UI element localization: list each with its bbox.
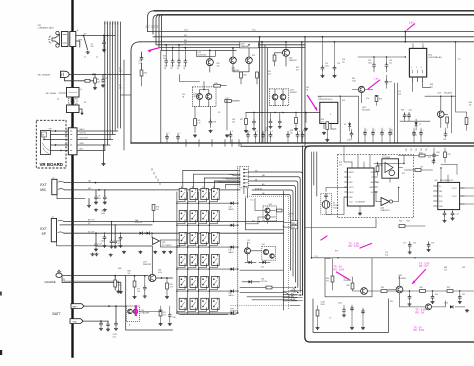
capacitor C38: [210, 107, 212, 121]
svg-text:2SC4081: 2SC4081: [398, 278, 406, 280]
svg-text:47u: 47u: [118, 243, 121, 245]
capacitor C81: [432, 291, 434, 296]
diode D7: [415, 122, 418, 125]
svg-text:C6: C6: [105, 78, 107, 80]
wire stub: [455, 306, 465, 308]
svg-text:DTC144TU: DTC144TU: [162, 245, 172, 247]
svg-text:R47: R47: [240, 119, 243, 121]
capacitor C8: [95, 190, 97, 197]
svg-text:VR BOARD: VR BOARD: [40, 162, 63, 167]
transistor Q19 dashed pair: [269, 89, 288, 106]
capacitor C14: [95, 233, 97, 243]
resistor R60: [446, 113, 448, 115]
resistor R7B: [153, 211, 155, 222]
wire SJ OUT: [64, 232, 284, 234]
wire top rail double line: [154, 10, 474, 12]
wire gnd feed: [83, 320, 108, 322]
wire VR to connector rows: [44, 131, 68, 151]
wire q29 links: [139, 310, 160, 311]
resistor R87: [447, 290, 453, 293]
svg-text:R74: R74: [448, 154, 451, 156]
diode D5: [349, 122, 351, 123]
VR BOARD dashed outline: [36, 120, 66, 168]
svg-text:RX : 5.0V: RX : 5.0V: [334, 269, 345, 272]
wire y=223.8: [246, 223, 259, 225]
ground IC9: [359, 206, 361, 212]
transistor Q32: [245, 248, 251, 254]
wire keypad row 1 output: [177, 202, 229, 204]
wire ic9 to right: [374, 155, 404, 164]
junction dots IC9 area: [403, 163, 404, 164]
capacitor C58: [444, 132, 448, 137]
svg-text:2SB1132: 2SB1132: [143, 264, 152, 266]
keypad row 3 switches S9-S12: [179, 232, 219, 245]
wire keypad row 3 output: [177, 246, 229, 248]
svg-text:R29: R29: [252, 55, 255, 57]
wire y=270: [240, 269, 283, 271]
wire y=146.3 box top extension: [241, 145, 310, 147]
svg-text:SJ OUT: SJ OUT: [88, 231, 95, 233]
ground mic return: [88, 199, 90, 205]
capacitor C15: [111, 222, 113, 241]
wire charge rail to Q27: [126, 275, 149, 277]
svg-text:J3: J3: [71, 126, 73, 128]
svg-text:C23: C23: [337, 63, 340, 65]
svg-text:INPUT: INPUT: [349, 172, 355, 174]
wire exits to main box: PTT etc: [240, 287, 295, 295]
transistor Q30 dashed pair: [263, 206, 277, 221]
svg-text:10k: 10k: [163, 58, 166, 60]
wire x1 to IC9: [326, 188, 347, 215]
svg-text:C66: C66: [376, 182, 379, 184]
svg-text:C58: C58: [443, 139, 446, 141]
component box U2 (hook switch): [67, 88, 80, 98]
svg-text:VOL IN: VOL IN: [80, 133, 87, 135]
svg-text:10u: 10u: [389, 62, 392, 64]
svg-text:10u: 10u: [137, 291, 140, 293]
diode D32 row 3: [231, 246, 234, 249]
resistor R50: [295, 113, 297, 118]
svg-text:2SA1586: 2SA1586: [241, 45, 249, 48]
magenta annotation at x=406 vcc drop: [407, 24, 415, 30]
switch contacts: [58, 220, 64, 221]
svg-text:MIC: MIC: [40, 188, 47, 192]
diode D14: [263, 261, 266, 264]
svg-text:Q81: Q81: [162, 242, 166, 244]
resistor R47: [245, 113, 247, 119]
svg-text:TX1: TX1: [411, 148, 413, 151]
component box U3: [67, 105, 80, 113]
svg-text:0.47u: 0.47u: [158, 272, 162, 274]
svg-text:TX2: TX2: [416, 148, 418, 151]
wire bundle extra x=120.5: [120, 22, 122, 128]
capacitor C4: [103, 36, 105, 42]
svg-text:0.8V: 0.8V: [374, 79, 379, 81]
ground: [80, 113, 83, 115]
dotted vertical x=288.5: [288, 194, 290, 310]
svg-text:R201: R201: [419, 153, 423, 155]
capacitor C91: [144, 276, 146, 287]
IC6 regulator box: [320, 102, 338, 123]
net tag boxes: [291, 221, 298, 224]
wire AF OUT: [64, 221, 284, 223]
wire EXT wires vertical crossing dots: [259, 221, 260, 222]
magenta annotation Q28: [368, 80, 379, 89]
ground: [94, 248, 98, 251]
wire long vertical x=160.8: [160, 50, 162, 143]
wire bus rail y=47.6: [160, 47, 306, 49]
svg-text:0.01: 0.01: [413, 243, 416, 245]
capacitor C102: [350, 131, 354, 136]
node KI arrows: [283, 292, 297, 301]
wire rail y=119: [400, 120, 430, 122]
wire BACC: [77, 130, 118, 132]
svg-text:R33: R33: [243, 75, 246, 77]
wire verticals x=394.5/397: [395, 83, 398, 143]
wire verticals inside box top: [314, 152, 317, 196]
wire y=57 rail: [358, 56, 405, 58]
svg-text:R63: R63: [407, 221, 410, 223]
svg-text:33u: 33u: [98, 198, 101, 200]
wire board bottom rail y=143: [131, 142, 474, 144]
resistor R48: [134, 276, 136, 281]
svg-text:BACC: BACC: [80, 128, 86, 131]
transistor Q22: [206, 59, 213, 66]
svg-text:L1: L1: [149, 25, 151, 27]
keypad row 5 switches S17-S20: [179, 276, 219, 289]
capacitor C36b: [141, 52, 143, 57]
svg-text:R86: R86: [420, 287, 423, 289]
resistor R66: [277, 209, 283, 212]
transistor Q81 triangle: [153, 238, 160, 245]
svg-text:D5: D5: [344, 124, 346, 126]
svg-text:10k: 10k: [156, 209, 159, 211]
wire ACC: [77, 150, 105, 152]
wire net tag lines to bus band: [248, 172, 302, 295]
potentiometer arrows: [43, 148, 49, 154]
svg-text:AF(AUX): AF(AUX): [255, 187, 263, 190]
wire left net bundle verticals: [104, 22, 106, 151]
svg-text:S-80735AL-AX: S-80735AL-AX: [428, 56, 442, 59]
svg-text:XP1501: XP1501: [193, 96, 200, 98]
component R/C row: [266, 286, 272, 289]
svg-text:4.7k: 4.7k: [197, 122, 200, 124]
svg-text:47k: 47k: [339, 164, 342, 166]
diode D11: [147, 232, 150, 235]
svg-text:RX : 5.0V: RX : 5.0V: [414, 329, 425, 332]
svg-text:100u: 100u: [101, 213, 105, 215]
svg-text:R85: R85: [381, 287, 384, 289]
svg-text:4.7k: 4.7k: [268, 73, 271, 75]
svg-text:MA151: MA151: [229, 294, 234, 297]
wire bundle extra x=124: [123, 60, 125, 150]
capacitor bypass at x=288: [287, 131, 289, 134]
wire SP out: [76, 35, 115, 37]
wire q30 row links: [255, 199, 265, 224]
capacitor C23: [334, 42, 336, 67]
switch contacts: [59, 181, 65, 182]
diode D30 row 1: [231, 202, 234, 205]
svg-text:L0: L0: [146, 25, 148, 27]
svg-text:VCO1: VCO1: [452, 188, 457, 190]
resistor R33: [240, 72, 243, 78]
magenta annotation charge: [135, 305, 137, 316]
wire bundle bend x=120.5: [121, 94, 132, 96]
wire loop rectangle around Q33: [325, 259, 372, 297]
svg-text:10k: 10k: [97, 81, 100, 83]
capacitor C82: [459, 291, 461, 296]
wire bottom rail segment: [400, 299, 425, 307]
svg-text:2SB1201: 2SB1201: [289, 60, 297, 62]
svg-text:C78: C78: [431, 243, 434, 245]
connector EXT MIC jack body: [52, 179, 57, 194]
wire ic10 pins: [378, 165, 403, 182]
svg-text:10u: 10u: [342, 61, 345, 63]
connector EXT SP jack body: [51, 218, 56, 241]
svg-text:5.0V: 5.0V: [409, 22, 414, 24]
wire left feed risers: [152, 168, 160, 184]
svg-text:C49: C49: [389, 82, 392, 84]
svg-text:C5: C5: [96, 57, 98, 59]
wire vertical band above right box: [301, 42, 303, 143]
wire ic8 top link: [441, 165, 457, 175]
svg-text:DTA114TU: DTA114TU: [380, 209, 390, 212]
capacitor C9: [104, 190, 106, 197]
svg-text:2SA1586: 2SA1586: [232, 69, 240, 72]
svg-text:EXT: EXT: [40, 183, 46, 187]
IC8 pins: [434, 185, 438, 187]
IC11 box: [409, 48, 426, 77]
svg-text:100u: 100u: [325, 65, 329, 67]
wire x=451.5: [451, 96, 453, 133]
svg-text:DTA144EK: DTA144EK: [141, 311, 151, 314]
IC9 dashed section box: [337, 155, 413, 218]
wire bus rail VCC y=32: [148, 31, 474, 33]
wire VOL IN: [77, 134, 115, 136]
resistor R75: [114, 276, 116, 280]
extra bypass caps above rail right: [364, 128, 366, 132]
wire row y=112.5: [246, 112, 321, 114]
wire bus rail y=50.4: [162, 49, 237, 51]
svg-text:C38: C38: [213, 122, 216, 124]
transistor Q21: [246, 57, 253, 64]
svg-text:R246: R246: [321, 304, 325, 306]
wire IC11 pin drops: [413, 81, 431, 91]
wire board outline top-left rounded corner: [131, 42, 140, 143]
svg-text:R90: R90: [435, 294, 438, 296]
ground far: [465, 309, 469, 312]
svg-text:0.01: 0.01: [385, 254, 388, 256]
wire sp return: [57, 242, 97, 246]
wire keypad row 2 output: [177, 224, 229, 226]
magenta annotation IC6: [308, 96, 317, 111]
connector keypad flex dashed: [240, 166, 249, 188]
junction dots IC9 right: [377, 163, 378, 164]
capacitor C18: [172, 48, 174, 60]
capacitor C19: [178, 45, 180, 60]
components near Q33: [331, 276, 334, 282]
svg-text:100: 100: [91, 46, 94, 48]
wire Q27 top to SP return: [96, 246, 152, 274]
svg-text:SWITCH: SWITCH: [135, 222, 143, 224]
svg-text:Q31: Q31: [262, 244, 265, 246]
resistor R4 vertical: [94, 74, 96, 78]
junction dots bus: [165, 44, 167, 46]
svg-text:S-81250PG-PQ: S-81250PG-PQ: [318, 99, 332, 101]
wire dashed box feeds up to rail: [344, 146, 352, 162]
capacitor C46: [270, 113, 272, 121]
wire main vertical battery rail: [71, 0, 73, 357]
svg-text:VCO2: VCO2: [452, 196, 457, 198]
keypad row 2 switches S5-S8: [179, 211, 219, 224]
ground: [193, 134, 197, 137]
connector J1 box on rail: [70, 32, 76, 47]
svg-text:47k: 47k: [326, 280, 329, 282]
capacitor C26: [386, 57, 388, 64]
ground caps above: [91, 253, 95, 256]
connector jack body box: [62, 32, 69, 47]
svg-text:D3: D3: [218, 112, 220, 114]
svg-text:VOL OUT: VOL OUT: [80, 138, 89, 140]
wire long rail y=257.8: [312, 257, 474, 259]
capacitor bypass at x=167: [166, 133, 168, 136]
svg-text:R82: R82: [347, 285, 350, 287]
component VR block: [41, 131, 51, 155]
svg-text:R72: R72: [428, 157, 431, 159]
capacitor C17: [165, 45, 167, 60]
page edge mark 2: [0, 350, 2, 355]
svg-text:IC8: IC8: [434, 180, 437, 182]
diode D33 row 4: [231, 268, 234, 271]
svg-text:LED1: LED1: [444, 303, 448, 305]
capacitor C49: [386, 75, 388, 80]
wire Q27 emitter right: [156, 277, 173, 279]
svg-text:MA151: MA151: [229, 251, 234, 254]
capacitor bypass at x=263: [262, 131, 264, 134]
svg-text:4: 4: [330, 114, 331, 116]
svg-text:R9: R9: [84, 102, 86, 104]
svg-text:L2: L2: [151, 25, 153, 27]
wire MIC: [65, 189, 241, 191]
wire keypad left column stubs: [180, 187, 182, 189]
svg-text:C83: C83: [462, 267, 465, 269]
wire IC8 right pins out: [460, 188, 474, 204]
wire q28 connections: [352, 90, 372, 103]
transistor Q81 label box: [161, 240, 180, 247]
components row under Q28: [375, 96, 378, 102]
capacitor C47: [279, 113, 281, 121]
svg-text:Q1: Q1: [57, 99, 59, 101]
connector GND tag: [70, 319, 83, 324]
svg-text:VCC: VCC: [184, 30, 189, 32]
resistor R85: [381, 290, 387, 293]
svg-text:~MIC DEMA~: ~MIC DEMA~: [45, 92, 58, 95]
capacitor C20: [184, 48, 186, 60]
svg-text:2: 2: [416, 67, 417, 69]
wire y=290.5 long rail: [367, 290, 474, 292]
svg-text:ACC: ACC: [80, 148, 85, 151]
wire keyboard dotted return: [231, 305, 291, 307]
svg-text:R68: R68: [401, 110, 404, 112]
components between IC9 and IC8: [405, 169, 433, 171]
transistor Q20: [230, 57, 237, 64]
wire top-left bus bend bundle: [148, 11, 155, 32]
ground mid cluster: [304, 128, 308, 131]
svg-text:PTT: PTT: [293, 288, 296, 290]
wire vertical pair A: [260, 37, 263, 143]
capacitor C45: [253, 113, 255, 121]
svg-text:AF OUT: AF OUT: [88, 219, 95, 222]
wire y=96 rail: [318, 95, 358, 97]
wire mute links: [121, 233, 153, 237]
wire bottom link from keyboard dotted to box: [290, 305, 300, 307]
diode D13: [249, 261, 252, 264]
svg-text:OSC1: OSC1: [349, 187, 354, 189]
svg-text:VCC: VCC: [252, 30, 257, 32]
svg-text:47k: 47k: [469, 104, 472, 106]
svg-text:0.01: 0.01: [398, 93, 401, 95]
svg-text:C68: C68: [437, 152, 440, 154]
transistor Q35: [426, 304, 432, 310]
svg-text:R71: R71: [402, 173, 405, 175]
wire q34 base: [388, 276, 399, 299]
svg-text:100: 100: [217, 65, 220, 67]
wire vertical pair B: [265, 45, 267, 143]
wire SP feed: [60, 224, 152, 226]
svg-text:47k: 47k: [119, 87, 122, 89]
svg-text:R91: R91: [390, 301, 393, 303]
svg-text:R54: R54: [342, 100, 345, 102]
capacitor C107: [100, 321, 102, 323]
svg-text:C102: C102: [347, 140, 351, 142]
svg-text:COMBINED JACK: COMBINED JACK: [38, 26, 55, 29]
wire feed bends to connector: [215, 170, 240, 182]
svg-text:100: 100: [232, 121, 235, 123]
connector charge jack: [56, 273, 62, 277]
wire y=96.2 right: [425, 95, 456, 97]
capacitor C16: [114, 225, 116, 241]
svg-text:560: 560: [118, 284, 121, 286]
components above IC8: [433, 148, 435, 154]
IC11 pins: [413, 45, 423, 48]
diode bottom: [450, 305, 453, 308]
connector D-jack symbol: [61, 71, 70, 77]
svg-text:D7: D7: [419, 124, 421, 126]
transistor Q29 dashed pair: [126, 306, 139, 322]
svg-text:XP4601: XP4601: [290, 92, 297, 94]
wire keypad bottom bus: [177, 311, 228, 315]
svg-text:~MIC DEMA IN~: ~MIC DEMA IN~: [37, 73, 52, 76]
svg-text:2SC4081: 2SC4081: [362, 110, 370, 112]
transistor Q16: [283, 49, 290, 56]
svg-text:GND: GND: [80, 143, 85, 145]
wire vcc drop x=405: [404, 32, 406, 42]
wire batt feed: [84, 305, 126, 307]
svg-text:TX4: TX4: [426, 148, 428, 151]
svg-text:2SC4081: 2SC4081: [344, 280, 352, 282]
svg-text:Q13: Q13: [437, 92, 441, 94]
capacitor bypass at x=297.5: [297, 131, 299, 134]
main unit board outline (rounded box): [305, 146, 474, 342]
ground row upper: [122, 251, 126, 254]
IC9 box: [347, 168, 374, 206]
resistor R45: [225, 100, 232, 103]
ground: [102, 163, 106, 166]
capacitor C19: [104, 233, 106, 236]
capacitor C20: [120, 233, 122, 237]
svg-text:R55: R55: [379, 99, 382, 101]
capacitor bypass at x=302.5: [302, 131, 304, 134]
